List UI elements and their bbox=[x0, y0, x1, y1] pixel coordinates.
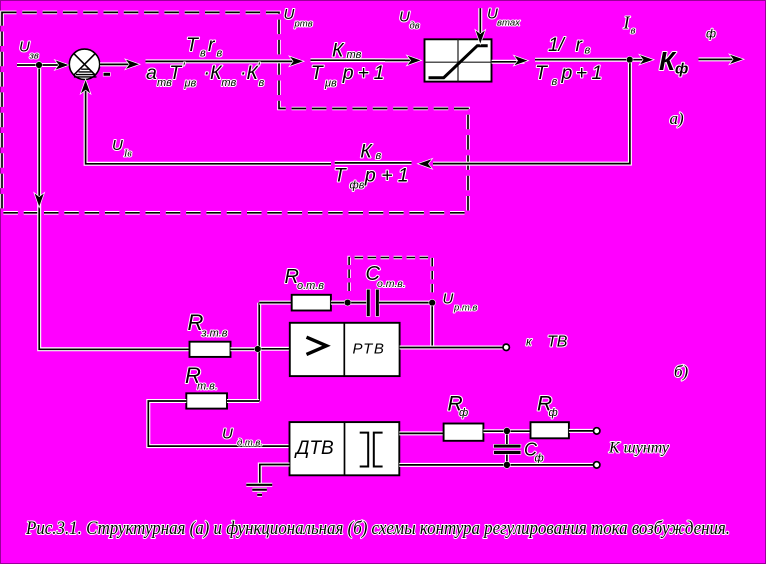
resistor R_зтв bbox=[190, 342, 231, 357]
sensor ДТВ box bbox=[290, 422, 400, 475]
svg-text:дв: дв bbox=[410, 21, 420, 32]
resistor R_ф first bbox=[444, 424, 484, 441]
wire W2 to limiter bbox=[385, 56, 421, 65]
svg-text:зв: зв bbox=[29, 51, 39, 62]
dashed regulator boundary bbox=[2, 12, 468, 212]
wire R_тв right bbox=[227, 399, 259, 403]
shunt symbol in ДТВ bbox=[360, 433, 383, 467]
svg-text:а): а) bbox=[670, 109, 685, 128]
resistor R_отв bbox=[292, 295, 331, 311]
capacitor C_ф bbox=[494, 434, 521, 465]
wire node vertical branch bbox=[257, 303, 261, 402]
wire W3 to node bbox=[605, 58, 630, 62]
svg-text:К шунту: К шунту bbox=[608, 440, 670, 457]
limiter block bbox=[425, 39, 492, 81]
svg-text:р.т.в: р.т.в bbox=[453, 303, 477, 314]
svg-text:U: U bbox=[284, 6, 295, 23]
svg-text:U: U bbox=[112, 137, 123, 154]
feedback block W4 transfer function bbox=[334, 140, 412, 191]
wire input Uзв bbox=[17, 60, 69, 69]
svg-text:РТВ: РТВ bbox=[353, 341, 386, 358]
output wire к ТВ bbox=[400, 346, 503, 350]
wire W1 to W2 bbox=[266, 57, 303, 66]
svg-text:ДТВ: ДТВ bbox=[294, 438, 334, 459]
node R_отв C_отв bbox=[345, 300, 351, 306]
svg-text:I: I bbox=[623, 13, 631, 33]
block W1 transfer function bbox=[146, 34, 267, 90]
svg-text:з.т.в: з.т.в bbox=[201, 328, 228, 340]
arrow U_вmax into limiter bbox=[476, 8, 485, 43]
node I_в bbox=[627, 57, 633, 63]
wire summer to block W1 bbox=[100, 60, 139, 69]
svg-text:ф: ф bbox=[549, 407, 558, 419]
ground wire bbox=[260, 465, 290, 485]
node filter bottom bbox=[504, 462, 510, 468]
arrow node to КФ bbox=[633, 55, 653, 64]
wire setpoint down to functional diagram bbox=[35, 68, 190, 349]
wire R_ф to node bbox=[483, 429, 530, 433]
svg-text:д.т.в.: д.т.в. bbox=[237, 438, 263, 449]
svg-text:ф: ф bbox=[535, 453, 544, 465]
wire node to РТВ input bbox=[258, 347, 290, 351]
svg-text:ТВ: ТВ bbox=[547, 334, 568, 351]
svg-text:U: U bbox=[19, 39, 30, 56]
svg-text:ф: ф bbox=[706, 27, 716, 41]
wire R_отв to node bbox=[331, 301, 367, 305]
minus sign bbox=[104, 73, 111, 76]
svg-text:U: U bbox=[222, 426, 233, 443]
wire to R_отв bbox=[259, 301, 292, 305]
svg-text:о.т.в.: о.т.в. bbox=[377, 278, 406, 290]
block W3 transfer function bbox=[535, 34, 605, 88]
svg-text:ртв: ртв bbox=[294, 19, 313, 30]
wire ДТВ top output bbox=[399, 431, 443, 435]
node input junction bbox=[36, 62, 42, 68]
wire R_зтв to node bbox=[231, 347, 258, 351]
svg-text:о.т.в: о.т.в bbox=[297, 280, 324, 292]
feedback wire to summer bbox=[81, 80, 331, 164]
wire R_ф to terminal bbox=[569, 429, 594, 433]
wire node to РТВ output bbox=[430, 306, 434, 348]
svg-text:U: U bbox=[443, 291, 454, 308]
resistor R_ф second bbox=[531, 422, 569, 438]
terminal шунт bottom bbox=[594, 462, 600, 468]
feedback wire from node I_в bbox=[419, 63, 630, 169]
resistor R_тв bbox=[186, 393, 227, 408]
svg-text:ф: ф bbox=[459, 407, 468, 419]
svg-text:Iв: Iв bbox=[123, 149, 132, 160]
svg-text:вmax: вmax bbox=[497, 18, 521, 29]
wire limiter to W3 bbox=[492, 56, 528, 65]
svg-text:в: в bbox=[631, 26, 636, 37]
terminal к ТВ bbox=[503, 344, 509, 350]
svg-text:Рис.3.1. Структурная (а) и фун: Рис.3.1. Структурная (а) и функциональна… bbox=[25, 518, 730, 539]
terminal шунт top bbox=[594, 428, 600, 434]
op-amp РТВ box bbox=[290, 323, 400, 376]
dashed box around C_отв bbox=[349, 258, 432, 296]
capacitor C_отв bbox=[367, 290, 379, 317]
node regulator input bbox=[255, 346, 261, 352]
node U_ртв bbox=[429, 300, 435, 306]
node filter top bbox=[504, 428, 510, 434]
svg-text:U: U bbox=[399, 9, 410, 26]
wire R_тв to ДТВ bbox=[148, 401, 289, 446]
ground symbol bbox=[246, 485, 272, 495]
wire C_отв to output node bbox=[379, 301, 432, 305]
svg-text:б): б) bbox=[674, 362, 689, 381]
block W2 transfer function bbox=[311, 39, 386, 89]
summing junction bbox=[69, 49, 99, 79]
output wire Ф bbox=[699, 55, 744, 64]
svg-text:т.в.: т.в. bbox=[197, 381, 218, 393]
wire ДТВ bottom output bbox=[399, 463, 593, 467]
